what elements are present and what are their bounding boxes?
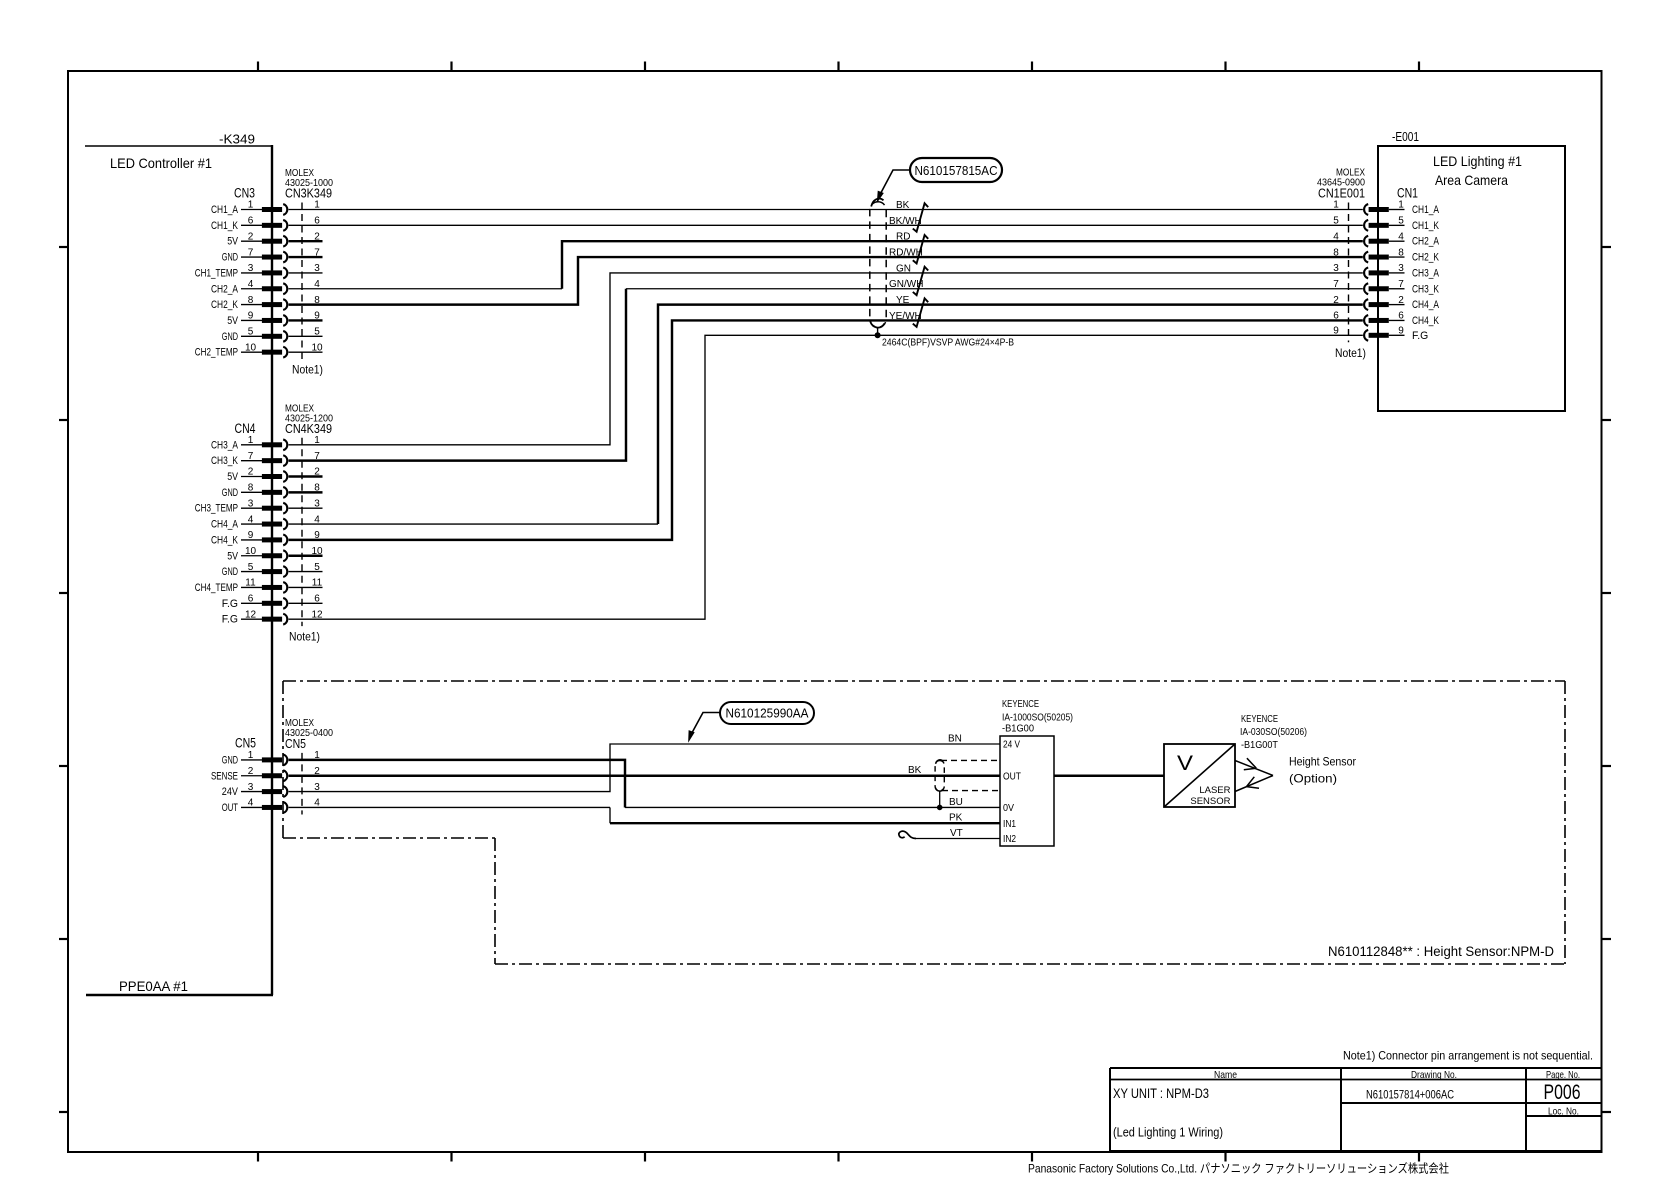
CN5 pin 2 (SENSE) [211, 766, 320, 782]
svg-text:9: 9 [248, 311, 254, 322]
svg-text:CH4_TEMP: CH4_TEMP [195, 582, 238, 594]
wire CH3_A (CN4-1 to CN1-3, GN) [289, 273, 1363, 445]
svg-text:RD: RD [896, 232, 910, 243]
svg-text:6: 6 [248, 216, 254, 227]
svg-text:(Option): (Option) [1289, 772, 1337, 786]
svg-text:7: 7 [314, 247, 320, 258]
svg-text:IN2: IN2 [1003, 834, 1016, 845]
svg-text:CN5: CN5 [235, 736, 256, 751]
wire CH2_A (CN3-4 to CN1-4, RD) [289, 241, 1363, 289]
svg-text:4: 4 [248, 514, 254, 525]
wire CN5-1 GND to 0V (BU) [289, 760, 1000, 808]
svg-text:2: 2 [248, 467, 254, 478]
CN4 pin 3 (CH3_TEMP) [195, 498, 323, 514]
svg-text:10: 10 [311, 342, 323, 353]
CN3 pin 8 (CH2_K) [211, 295, 320, 311]
svg-text:10: 10 [245, 342, 257, 353]
svg-text:1: 1 [1398, 200, 1404, 211]
svg-text:11: 11 [245, 578, 256, 589]
svg-text:2: 2 [314, 231, 320, 242]
svg-text:CH3_K: CH3_K [211, 455, 238, 467]
svg-text:CN1E001: CN1E001 [1318, 186, 1365, 201]
svg-text:CN3K349: CN3K349 [285, 186, 332, 201]
CN4 pin 10 (5V) [227, 546, 323, 562]
svg-text:CH4_K: CH4_K [211, 534, 238, 546]
svg-text:5: 5 [248, 562, 254, 573]
svg-text:BK/WH: BK/WH [889, 216, 922, 227]
wire amplifier OUT to laser sensor [1054, 775, 1164, 777]
shield drain junction on F.G [875, 332, 881, 338]
svg-text:-E001: -E001 [1392, 130, 1419, 144]
CN1 pin 5 (CH1_K) [1333, 216, 1439, 232]
CN3 pin 9 (5V) [227, 311, 322, 327]
drain junction on 0V wire [937, 805, 943, 811]
svg-text:CH3_A: CH3_A [211, 439, 239, 451]
svg-text:12: 12 [245, 609, 257, 620]
svg-text:5: 5 [314, 562, 320, 573]
svg-text:3: 3 [248, 498, 254, 509]
CN4 pin 2 (5V) [227, 467, 322, 483]
svg-text:24V: 24V [222, 786, 239, 798]
svg-text:3: 3 [248, 782, 254, 793]
svg-text:CH1_TEMP: CH1_TEMP [195, 267, 238, 279]
svg-text:GND: GND [222, 754, 238, 766]
CN3 pin 6 (CH1_K) [211, 216, 320, 232]
CN1 pin 4 (CH2_A) [1333, 231, 1440, 247]
CN3 pin 5 (GND) [222, 327, 323, 343]
svg-text:N610112848** : Height Sensor:N: N610112848** : Height Sensor:NPM-D [1328, 944, 1554, 959]
svg-text:V: V [1177, 752, 1193, 775]
CN4 pin 12 (F.G) [222, 609, 323, 625]
CN3 pin 4 (CH2_A) [211, 279, 320, 295]
CN1 pin 6 (CH4_K) [1333, 311, 1439, 327]
svg-text:Drawing No.: Drawing No. [1411, 1069, 1457, 1081]
svg-text:IN1: IN1 [1003, 819, 1016, 830]
svg-text:Area Camera: Area Camera [1435, 172, 1508, 188]
svg-text:2: 2 [314, 467, 320, 478]
height sensor option boundary (dash-dot) [283, 681, 1565, 964]
wire CH2_K (CN3-8 to CN1-8, RD/WH) [289, 257, 1363, 305]
svg-text:CH3_TEMP: CH3_TEMP [195, 503, 238, 515]
svg-text:2: 2 [248, 231, 254, 242]
svg-text:GND: GND [222, 566, 238, 578]
svg-text:10: 10 [311, 546, 323, 557]
CN5 pin 1 (GND) [222, 750, 320, 766]
callout N610157815AC [877, 158, 1002, 202]
CN4 pin 5 (GND) [222, 562, 323, 578]
connector CN4 (MOLEX 43025-1200 CN4K349) [235, 402, 334, 643]
svg-text:5: 5 [314, 327, 320, 338]
svg-text:CH2_A: CH2_A [1412, 236, 1440, 248]
CN3 pin 2 (5V) [227, 231, 322, 247]
cable type label [882, 337, 1014, 349]
wire F.G (CN4-12 to CN1-9) [289, 335, 1363, 619]
twisted-pair mark pair 1 [913, 203, 928, 231]
connector CN3 (MOLEX 43025-1000 CN3K349) [234, 167, 333, 377]
svg-text:7: 7 [248, 247, 254, 258]
svg-text:N610125990AA: N610125990AA [726, 705, 809, 720]
svg-text:5V: 5V [227, 550, 239, 562]
svg-text:8: 8 [248, 483, 254, 494]
svg-text:CH1_A: CH1_A [211, 204, 239, 216]
svg-text:CH2_A: CH2_A [211, 283, 239, 295]
OUT wire shield (dashed) [935, 760, 1000, 808]
svg-text:N610157815AC: N610157815AC [915, 163, 998, 178]
wire CH1_A (CN3-1 to CN1-1, BK) [289, 209, 1363, 211]
twisted-pair mark pair 2 [913, 235, 928, 263]
CN1 pin 3 (CH3_A) [1333, 263, 1440, 279]
svg-text:CH4_A: CH4_A [211, 519, 239, 531]
svg-text:1: 1 [248, 750, 254, 761]
callout N610125990AA [689, 702, 814, 741]
svg-text:7: 7 [248, 451, 254, 462]
CN1 pin 7 (CH3_K) [1333, 279, 1439, 295]
svg-text:BK: BK [908, 765, 922, 776]
svg-text:CH3_A: CH3_A [1412, 267, 1440, 279]
wire CH3_K (CN4-7 to CN1-7, GN/WH) [289, 289, 1363, 461]
wire CN5-2 SENSE to OUT (BK) [289, 775, 1000, 777]
svg-text:N610157814+006AC: N610157814+006AC [1366, 1088, 1454, 1102]
svg-text:Page. No.: Page. No. [1546, 1069, 1580, 1081]
svg-text:5V: 5V [227, 315, 239, 327]
CN4 pin 8 (GND) [222, 483, 323, 499]
LED Lighting #1 / Area Camera box -E001 [1378, 130, 1565, 411]
svg-text:CH3_K: CH3_K [1412, 283, 1439, 295]
svg-text:CH1_K: CH1_K [211, 220, 238, 232]
svg-text:-B1G00: -B1G00 [1002, 723, 1034, 735]
svg-text:BN: BN [948, 734, 962, 745]
svg-text:8: 8 [314, 483, 320, 494]
CN3 pin 1 (CH1_A) [211, 200, 320, 216]
Height Sensor (Option) label [1289, 755, 1356, 786]
svg-text:Loc. No.: Loc. No. [1548, 1106, 1579, 1118]
wire CH1_K (CN3-6 to CN1-5, BK/WH) [289, 224, 1363, 226]
CN1 pin 8 (CH2_K) [1333, 247, 1439, 263]
svg-text:LED Lighting #1: LED Lighting #1 [1433, 153, 1522, 169]
svg-text:CN3: CN3 [234, 186, 255, 201]
svg-text:GND: GND [222, 331, 238, 343]
svg-text:CN1: CN1 [1397, 185, 1418, 200]
svg-text:PK: PK [949, 813, 963, 824]
CN1 pin 2 (CH4_A) [1333, 295, 1440, 311]
note 1 text [1343, 1049, 1593, 1063]
CN4 pin 4 (CH4_A) [211, 514, 320, 530]
svg-text:Note1): Note1) [289, 630, 320, 644]
CN4 pin 6 (F.G) [222, 594, 323, 610]
svg-text:9: 9 [314, 311, 320, 322]
connector CN5 (MOLEX 43025-0400) [235, 717, 333, 815]
svg-text:F.G: F.G [1412, 330, 1428, 342]
svg-text:PPE0AA #1: PPE0AA #1 [119, 979, 188, 994]
svg-text:OUT: OUT [1003, 771, 1021, 782]
wire IN2 (VT) with open pigtail [899, 831, 1000, 838]
svg-text:IA-1000SO(50205): IA-1000SO(50205) [1002, 711, 1073, 723]
connector CN1 (MOLEX 43645-0900 CN1E001) [1317, 166, 1418, 360]
svg-text:3: 3 [314, 263, 320, 274]
svg-text:GND: GND [222, 252, 238, 264]
KEYENCE amplifier IA-1000SO -B1G00 [1000, 698, 1073, 846]
svg-text:Note1): Note1) [1335, 346, 1366, 360]
svg-text:Note1): Note1) [292, 363, 323, 377]
svg-text:5V: 5V [227, 236, 239, 248]
svg-text:YE/WH: YE/WH [889, 311, 922, 322]
CN5 pin 4 (OUT) [222, 798, 320, 814]
wire colour labels BK..YE/WH [889, 200, 923, 322]
CN4 pin 9 (CH4_K) [211, 530, 320, 546]
svg-text:11: 11 [312, 578, 323, 589]
CN3 pin 7 (GND) [222, 247, 323, 263]
svg-text:CH2_K: CH2_K [1412, 252, 1439, 264]
svg-text:CN4: CN4 [235, 421, 256, 436]
svg-text:6: 6 [248, 594, 254, 605]
CN4 pin 1 (CH3_A) [211, 435, 320, 451]
svg-text:Panasonic Factory Solutions Co: Panasonic Factory Solutions Co.,Ltd. パナソ… [1028, 1161, 1449, 1176]
svg-text:3: 3 [1398, 263, 1404, 274]
CN1 pin 9 (F.G) [1333, 326, 1428, 342]
svg-text:CH1_K: CH1_K [1412, 220, 1439, 232]
svg-text:2: 2 [1398, 295, 1404, 306]
svg-text:9: 9 [248, 530, 254, 541]
twisted-pair mark pair 3 [913, 267, 928, 295]
svg-text:CH1_A: CH1_A [1412, 204, 1440, 216]
svg-text:1: 1 [248, 200, 254, 211]
svg-text:BU: BU [949, 797, 963, 808]
svg-text:4: 4 [1398, 231, 1404, 242]
svg-text:SENSE: SENSE [211, 770, 238, 782]
svg-text:KEYENCE: KEYENCE [1241, 713, 1278, 725]
svg-text:LASER: LASER [1199, 785, 1230, 796]
svg-text:SENSOR: SENSOR [1190, 796, 1230, 807]
svg-text:VT: VT [950, 828, 963, 839]
svg-text:-K349: -K349 [219, 132, 255, 146]
svg-text:7: 7 [1398, 279, 1404, 290]
cable shield ellipse [870, 199, 886, 336]
svg-text:6: 6 [1398, 311, 1404, 322]
svg-text:8: 8 [248, 295, 254, 306]
svg-text:P006: P006 [1544, 1081, 1581, 1104]
CN3 pin 10 (CH2_TEMP) [195, 342, 323, 358]
svg-text:IA-030SO(50206): IA-030SO(50206) [1240, 726, 1307, 738]
svg-text:F.G: F.G [222, 614, 238, 626]
wire CN5-4 OUT to IN1 (PK) [289, 807, 1000, 823]
laser beam arrows [1235, 758, 1273, 791]
svg-text:GN: GN [896, 263, 911, 274]
svg-text:8: 8 [1398, 247, 1404, 258]
svg-text:Name: Name [1214, 1069, 1237, 1081]
svg-text:6: 6 [314, 594, 320, 605]
svg-text:CH4_K: CH4_K [1412, 315, 1439, 327]
svg-text:3: 3 [314, 498, 320, 509]
svg-text:5V: 5V [227, 471, 239, 483]
svg-text:BK: BK [896, 200, 910, 211]
svg-text:XY UNIT : NPM-D3: XY UNIT : NPM-D3 [1113, 1085, 1209, 1101]
svg-text:9: 9 [1398, 326, 1404, 337]
svg-text:-B1G00T: -B1G00T [1241, 739, 1279, 751]
svg-text:2: 2 [248, 766, 254, 777]
svg-text:24 V: 24 V [1003, 740, 1020, 751]
LED Controller #1 box -K349 [85, 132, 273, 995]
svg-text:CN4K349: CN4K349 [285, 421, 332, 436]
wire CH4_A (CN4-4 to CN1-2, YE) [289, 305, 1363, 524]
svg-text:CH2_TEMP: CH2_TEMP [195, 347, 238, 359]
amp wire labels BN BK BU PK VT [908, 734, 963, 840]
wire CN5-3 24V to 24V (BN) [289, 744, 1000, 792]
svg-text:10: 10 [245, 546, 257, 557]
svg-text:LED Controller #1: LED Controller #1 [110, 155, 212, 171]
svg-text:3: 3 [248, 263, 254, 274]
svg-text:2464C(BPF)VSVP AWG#24×4P-B: 2464C(BPF)VSVP AWG#24×4P-B [882, 337, 1014, 349]
CN4 pin 7 (CH3_K) [211, 451, 320, 467]
svg-text:Note1) Connector pin arrangeme: Note1) Connector pin arrangement is not … [1343, 1049, 1593, 1063]
svg-text:(Led Lighting 1 Wiring): (Led Lighting 1 Wiring) [1113, 1125, 1223, 1140]
svg-text:0V: 0V [1003, 803, 1014, 814]
svg-text:CN5: CN5 [285, 736, 306, 751]
svg-text:KEYENCE: KEYENCE [1002, 698, 1039, 710]
CN4 pin 11 (CH4_TEMP) [195, 578, 323, 594]
laser sensor head IA-030SO -B1G00T [1164, 713, 1307, 807]
svg-text:5: 5 [248, 327, 254, 338]
footer company name [1028, 1161, 1449, 1176]
CN5 pin 3 (24V) [222, 782, 320, 798]
twisted-pair mark pair 4 [913, 298, 928, 326]
svg-text:F.G: F.G [222, 598, 238, 610]
svg-text:1: 1 [248, 435, 254, 446]
svg-text:4: 4 [248, 798, 254, 809]
svg-text:Height Sensor: Height Sensor [1289, 755, 1356, 769]
note N610112848 height sensor [1328, 944, 1554, 959]
svg-text:4: 4 [248, 279, 254, 290]
svg-text:CH4_A: CH4_A [1412, 299, 1440, 311]
svg-text:GND: GND [222, 487, 238, 499]
wire CH4_K (CN4-9 to CN1-6, YE/WH) [289, 320, 1363, 539]
svg-text:YE: YE [896, 295, 910, 306]
title block [1110, 1068, 1602, 1151]
svg-text:OUT: OUT [222, 802, 239, 814]
CN3 pin 3 (CH1_TEMP) [195, 263, 323, 279]
svg-text:5: 5 [1398, 216, 1404, 227]
CN1 pin 1 (CH1_A) [1333, 200, 1440, 216]
svg-text:CH2_K: CH2_K [211, 299, 238, 311]
